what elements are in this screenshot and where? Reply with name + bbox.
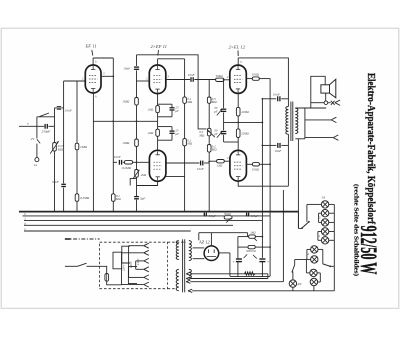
tube V2 EF11 driver upper (149, 65, 166, 94)
lamp pilot 6 (311, 246, 318, 253)
wire snubber bottom line (262, 144, 276, 146)
svg-text:MΩ: MΩ (198, 134, 205, 138)
capacitor 50pF trimmer upper (221, 109, 226, 111)
wire V2 plate to coupling cap (166, 79, 190, 81)
wire speaker tap row2 (305, 119, 331, 121)
wire rectifier output down (229, 253, 231, 276)
wire 5000 row left (238, 246, 248, 248)
resistor 100 screen V4 (252, 163, 260, 172)
resistor 100 screen V3 (252, 73, 260, 81)
wire heater loop2 top (190, 281, 283, 283)
svg-text:MΩ: MΩ (57, 147, 64, 151)
wire selector run 2 (129, 245, 144, 247)
node grid chain mid (136, 120, 138, 122)
svg-text:50nF: 50nF (52, 180, 60, 184)
wire grid of EF11 (64, 80, 86, 82)
inductor mains primary upper (176, 241, 179, 260)
svg-text:AZ 12: AZ 12 (198, 239, 210, 244)
lamp fuse 4 (321, 228, 328, 235)
potentiometer 50k hum (224, 212, 232, 219)
wire mains dash-dot line (65, 238, 100, 240)
wire main ground bus (19, 211, 298, 213)
wire 50nF to ground bus (63, 188, 65, 212)
wire cap2 to box bottom (261, 262, 263, 276)
svg-text:50kΩ: 50kΩ (224, 212, 231, 216)
resistor 0.1M screen upper (183, 97, 192, 104)
lamp fuse 2 (321, 210, 328, 217)
wire 1k feed (247, 233, 249, 237)
svg-text:10nF: 10nF (114, 155, 122, 159)
node V1 plate junction (112, 75, 114, 77)
wire heater loop1 end (267, 274, 269, 279)
wire mid group drop (305, 259, 307, 273)
wire lamp6 right (318, 248, 323, 250)
pointer to 2xEF11 (157, 50, 160, 56)
wire cathode chain mid V3 (237, 116, 239, 129)
wire V1 top to plate column (93, 57, 113, 59)
wire plate trunk snubber mid (261, 122, 263, 145)
trimmer arrow lower (217, 131, 223, 138)
wire cathode chain bottom (237, 138, 239, 143)
core power transformer (182, 239, 184, 292)
svg-text:200Ω: 200Ω (241, 110, 249, 114)
wire cathode feedback rail (93, 120, 157, 122)
node cathode rail at plate column (112, 120, 114, 122)
wire grid cap horizontal (61, 107, 63, 109)
wire 5000 row right (255, 246, 270, 248)
capacitor 50pF trimmer lower (221, 132, 226, 134)
bracket selector B (122, 246, 130, 263)
wire grid-leak column (76, 81, 78, 143)
wire cap to 0.2M (123, 161, 125, 163)
wire scale lamp to bottom (292, 287, 294, 291)
trimmer arrow upper (217, 109, 223, 116)
wire input line (19, 125, 44, 127)
plug cross row1 (331, 101, 335, 105)
wire V1 cathode down to bus (92, 93, 94, 212)
wire NFB cap column mid (223, 113, 225, 131)
lamp pilot 7 (311, 256, 318, 263)
wire secondary return trunk (297, 139, 299, 229)
wire V2b cathode link (137, 181, 158, 185)
wire snubber bottom right (281, 144, 288, 146)
wire V2b grid chain from plate column (113, 161, 117, 163)
switch jack break blade (37, 139, 40, 143)
svg-text:10nF: 10nF (65, 109, 73, 113)
wire grid-leak to bus (76, 201, 78, 211)
wire cap1 bottom link (158, 116, 172, 118)
wire cap1 column (237, 237, 239, 259)
wire selector run 6 (122, 284, 144, 286)
svg-text:200Ω: 200Ω (241, 132, 249, 136)
wire gramophone switch line (37, 116, 55, 118)
wire V1 anode-top pin (92, 58, 94, 65)
wire V2 top pin (157, 59, 159, 65)
capacitor 250pF input coupling (42, 124, 52, 133)
wire selector riser 1 (121, 253, 123, 285)
inductor filament winding AZ12 (189, 241, 192, 261)
wire lamp rail right (333, 204, 335, 290)
wire grid column EF11 (63, 81, 65, 183)
wire selector run 5 (136, 268, 144, 270)
hum pot arrow (226, 218, 230, 222)
wire stopper to V4 grid (224, 160, 230, 162)
resistor 0.3M lower (75, 194, 90, 202)
node cathode NFB tap (237, 122, 239, 124)
mains line end blob (65, 238, 71, 240)
wire selector riser 2 (128, 246, 130, 278)
wire B+ trunk down (282, 190, 284, 282)
resistor 0.2M grid lower (122, 161, 133, 171)
svg-text:220V: 220V (122, 263, 126, 271)
wire cap2 top link (158, 126, 172, 128)
svg-text:MΩ: MΩ (186, 142, 193, 146)
wire lamp5 right (329, 239, 335, 241)
svg-text:10nF: 10nF (274, 149, 282, 153)
resistor 200 cathode V3 (236, 107, 249, 116)
contact selector 252 (144, 250, 149, 255)
switch lamp group blade (323, 264, 330, 266)
cap1 pointer arrow (244, 254, 248, 258)
wire secondary bottom (295, 138, 305, 140)
wire screen column upper (184, 59, 186, 97)
wire NFB bottom link (224, 141, 239, 143)
wire heater line 4 (24, 230, 191, 232)
svg-text:(rechte Seite des Schaltbildes: (rechte Seite des Schaltbildes) (353, 184, 360, 276)
wire cap1 top link (158, 103, 172, 105)
wire cap1 to box bottom (237, 262, 239, 276)
tube V3 EL12 output upper (230, 65, 247, 93)
wire to fuse switch (298, 227, 301, 229)
capacitor 10nF to output grid (188, 73, 196, 82)
wire heater line 2 (24, 219, 262, 221)
wire V2 cathode (157, 94, 159, 106)
resistor 200 cathode V4 (236, 129, 249, 138)
continuation arrow loop2 bottom (188, 289, 192, 292)
wire cap to phase node (204, 162, 209, 164)
wire lamp1 left (307, 203, 322, 205)
wire mains switch line right (87, 265, 100, 267)
wire V4 grid from phase node (209, 160, 216, 162)
wire screen column middle (184, 103, 186, 138)
resistor 5000 ohm filter (246, 245, 256, 253)
svg-text:1MΩ: 1MΩ (80, 145, 88, 149)
wire 5uF to bus (136, 200, 138, 212)
tube V2b EF11 driver lower (149, 150, 166, 181)
wire V3 plate pin (237, 58, 239, 65)
wire heater loop1 top (190, 273, 268, 275)
wire cathode loop (130, 179, 136, 186)
connector output tap 2 (331, 117, 336, 122)
switch input selector blade (40, 113, 50, 117)
svg-text:10nF: 10nF (273, 92, 281, 96)
svg-text:5A: 5A (322, 196, 326, 200)
wire fuse to selector riser (107, 281, 122, 285)
capacitor 10nF lower coupling (114, 155, 122, 165)
wire lamp9 right (317, 272, 320, 274)
tube V4 EL12 output lower (230, 150, 247, 181)
svg-text:2×EL 12: 2×EL 12 (229, 44, 246, 49)
link lamps 2-3 left (319, 212, 322, 214)
cap2 pointer arrow (253, 255, 257, 258)
capacitor 0.5uF bus right (247, 213, 259, 219)
resistor 2k cathode upper (148, 106, 160, 113)
wire 0.2M to V2b grid (133, 161, 150, 163)
wire AZ12 anode supply (210, 233, 212, 246)
wire screen column to bus (184, 146, 186, 212)
wire plate trunk to filter (261, 145, 263, 258)
capacitor 10nF interstage (123, 67, 139, 71)
wire cap2 stub bottom (171, 134, 173, 140)
wire V3 cathode (237, 93, 239, 107)
switch scale lamp blade (292, 265, 295, 272)
wire lower group feed (295, 258, 311, 260)
wire 0.3M column top (208, 80, 210, 97)
wire screen V4 to trunk (259, 163, 270, 165)
wire selector run 4 (136, 260, 144, 262)
core output transformer (290, 102, 292, 142)
dashed extension bottom (168, 288, 176, 290)
potentiometer 0.5M tone (207, 128, 211, 136)
svg-text:250pF: 250pF (42, 129, 52, 133)
wire between grid resistors (136, 105, 138, 139)
wire NFB column bottom (223, 135, 225, 142)
resistor 0.2M phase lower (207, 144, 216, 152)
svg-text:+: + (267, 260, 270, 264)
wire lamp9 left (306, 272, 309, 274)
svg-text:2kΩ: 2kΩ (141, 173, 147, 177)
lamp pilot 9 (310, 269, 317, 276)
contact selector 269 (144, 267, 149, 272)
wire to scale lamp (292, 272, 294, 280)
wire phase column to grid node (208, 152, 210, 161)
node V4 grid (208, 161, 210, 163)
svg-text:1a: 1a (34, 163, 38, 167)
lamp fuse 3 (321, 219, 328, 226)
continuation arrow loop1 bottom (186, 277, 190, 280)
resistor 0.1M screen lower (183, 138, 192, 145)
wire input node down to grid cap (54, 108, 56, 126)
svg-text:+: + (232, 260, 235, 264)
node screen feed (269, 246, 271, 248)
svg-text:MΩ: MΩ (186, 100, 193, 104)
svg-text:10nF: 10nF (188, 73, 196, 77)
wire V3 screen stub (246, 78, 252, 80)
wire speaker feed (311, 76, 325, 108)
pointer to EF11 (92, 50, 93, 56)
inductor output transformer secondary (295, 108, 298, 133)
resistor 1k grid stopper V4 (217, 160, 225, 168)
wire cap to grid stopper (194, 79, 215, 81)
wire heater loop1 bottom (190, 278, 268, 280)
wire secondary top (295, 107, 326, 109)
node grid EL12 (223, 79, 225, 81)
capacitor 10nF snubber lower (274, 143, 282, 153)
wire lamp1 right (329, 203, 335, 205)
pointer to 2xEL12 (237, 51, 239, 57)
wire primary bottom (287, 134, 289, 186)
svg-text:2kΩ: 2kΩ (148, 131, 154, 135)
wire cap2 stub top (171, 127, 173, 131)
connector output tap 1 (335, 100, 340, 105)
connector output tap 3 (333, 135, 338, 140)
potentiometer cathode balance V2b (135, 170, 139, 178)
node NFB tap at trunk (262, 122, 264, 124)
wire jack column lower (36, 144, 38, 158)
capacitor 10nF snubber upper (273, 92, 281, 101)
svg-text:+: + (27, 121, 30, 126)
svg-text:2×EF 11: 2×EF 11 (151, 44, 167, 49)
wire grid stopper to EL12 (224, 79, 230, 81)
continuation arrow loop1 top (186, 272, 190, 275)
wire selector run 3 (129, 276, 144, 278)
wire 1k row right (255, 236, 262, 238)
resistor 1M V2 grid (122, 98, 138, 106)
resistor 2k cathode lower (148, 129, 160, 136)
contact selector 284 (144, 282, 149, 287)
wire B+ sub line (199, 232, 248, 234)
wire secondary tap drop (304, 108, 306, 139)
resistor 50k grid stopper (216, 74, 224, 81)
wire lamp10 right (318, 281, 321, 283)
wire phase column to bus (208, 163, 210, 212)
wire V4 bottom to transformer return (238, 181, 288, 186)
wire selector riser 3 (135, 261, 137, 269)
wire V2b plate to coupling (166, 162, 200, 164)
wire speaker tap row3 (305, 137, 333, 139)
wire speaker to jack (325, 93, 327, 101)
wire grid-leak middle (76, 150, 78, 194)
capacitor 0.5uF bus left (204, 213, 216, 219)
wire cap1 stub top (171, 104, 173, 107)
svg-text:1kΩ: 1kΩ (250, 231, 256, 235)
wire 1k row left (238, 236, 249, 238)
wire lamp10 bottom (313, 286, 315, 291)
speaker driver box (321, 85, 330, 93)
wire switch to lamp1 (306, 204, 308, 221)
resistor 0.3M phase (207, 97, 216, 104)
1k adjust tail (254, 238, 257, 241)
svg-text:pF: pF (213, 132, 218, 136)
node snubber top (262, 98, 264, 100)
wire snubber top line (262, 98, 276, 100)
wire phase column mid2 (208, 136, 210, 145)
svg-text:MΩ: MΩ (211, 100, 218, 104)
bracket selector C (128, 267, 137, 284)
node screen trunk V4 (269, 163, 271, 165)
wire lamp3 right (329, 221, 335, 223)
wire jack row1 right (328, 102, 331, 104)
wire phase column mid (208, 103, 210, 128)
wire filter box bottom (230, 276, 270, 278)
resistor 1M grid leak (75, 143, 87, 150)
node snubber bottom (262, 145, 264, 147)
wire mains switch line left (65, 265, 78, 267)
potentiometer 0.25M volume control (53, 143, 57, 152)
capacitor 50nF to bus (52, 180, 66, 187)
wire mains into fuse (100, 266, 107, 273)
wire heater line 3 (24, 224, 233, 226)
continuation arrow loop2 top (186, 280, 190, 283)
lamp pilot 10 (310, 278, 317, 285)
capacitor 25uF bypass lower (170, 129, 179, 134)
wire bottom long line (192, 290, 334, 292)
svg-text:Elektro-Apparate-Fabrik, Köppe: Elektro-Apparate-Fabrik, Köppelsdorf (365, 73, 377, 224)
lamp scale 8 (289, 280, 296, 287)
capacitor 5uF decoupling (134, 196, 146, 200)
tube V1 EF11 preamp (85, 65, 101, 93)
svg-text:100Ω: 100Ω (252, 167, 260, 171)
svg-text:1MΩ: 1MΩ (122, 141, 130, 145)
wire coupling cap to grid node (136, 70, 138, 81)
svg-text:2kΩ: 2kΩ (148, 107, 154, 111)
contact selector 260 (144, 258, 149, 263)
resistor 0.1M on plate column (112, 194, 121, 202)
wire lamp4 right (329, 231, 335, 233)
wire grid chain to coupling node (136, 147, 138, 197)
contact selector 245 (144, 243, 149, 248)
svg-text:1MΩ: 1MΩ (122, 100, 130, 104)
wire secondary return to switch (297, 212, 299, 229)
wire grid of V2 (137, 80, 150, 82)
switch mains blade (78, 263, 87, 266)
dashed box voltage selector (100, 242, 168, 289)
wire AZ12 filament top (193, 247, 205, 249)
wire input jack column (36, 117, 38, 139)
wire cap to volume pot (48, 125, 54, 127)
switch fuse board blade (302, 222, 309, 229)
svg-text:10nF: 10nF (123, 67, 131, 71)
wire jack row1 (311, 102, 324, 104)
wire lamp9 to lamp10 (319, 273, 321, 282)
contact selector 277 (144, 275, 149, 280)
resistor 1M lower grid (122, 139, 138, 147)
wire V3 plate to transformer (238, 58, 288, 107)
svg-text:125V: 125V (129, 260, 133, 268)
svg-text:1kΩ: 1kΩ (217, 164, 223, 168)
wire snubber top right (281, 98, 288, 100)
wire cathode chain mid2 (157, 136, 159, 150)
wire V1 plate right pin (101, 75, 113, 77)
resistor 1k filter (249, 231, 257, 239)
capacitor 30uF filter 2 (259, 259, 265, 262)
svg-text:MΩ: MΩ (211, 148, 218, 152)
wire plate trunk snubber top (261, 99, 263, 123)
inductor filament winding small (189, 269, 192, 278)
wire V4 screen stub (246, 163, 252, 165)
inductor output transformer primary (286, 106, 289, 134)
wire cathode chain mid1 (157, 113, 159, 130)
resistor hum bucking (245, 272, 256, 275)
inductor mains primary lower (176, 269, 179, 290)
dashed extension top (168, 241, 186, 243)
link lamps 4-5 left (318, 231, 322, 233)
terminal speaker jack (324, 101, 328, 105)
svg-text:μF: μF (175, 132, 179, 136)
node B+ trunk (262, 236, 264, 238)
svg-text:5000 Ω: 5000 Ω (246, 249, 256, 253)
wire AZ12 filament bottom (193, 258, 205, 260)
wire top rail to tone pot (137, 55, 207, 129)
wire lower feed drop (306, 249, 308, 259)
bracket selector A (113, 252, 122, 269)
speaker horn (330, 79, 336, 98)
wire lamp6 left (307, 248, 311, 250)
wire V2b bottom-right to screen column (166, 175, 185, 177)
svg-text:pF: pF (213, 110, 218, 114)
wire blade to rail (330, 265, 334, 267)
svg-text:AW: AW (296, 282, 302, 286)
